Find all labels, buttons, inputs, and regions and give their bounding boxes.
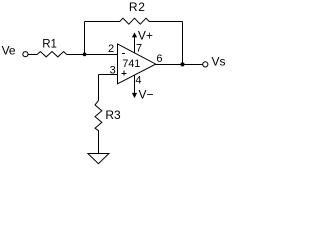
svg-text:R1: R1 [42,39,57,51]
resistor R1 [37,52,66,57]
svg-text:R2: R2 [129,0,146,14]
svg-text:2: 2 [108,43,114,55]
terminal Ve [23,52,28,57]
resistor R3 [95,101,102,131]
wire top horizontal (feedback through R2) [85,21,183,23]
terminal Vs [203,62,208,67]
op-amp U1 triangle [118,44,156,84]
svg-text:Vs: Vs [212,55,226,69]
wire pin 7 V+ [134,37,136,53]
wire output [156,64,203,66]
svg-text:7: 7 [136,43,142,55]
ground [88,154,109,164]
wire feedback right vertical [182,22,184,65]
op-amp plus sign pin3 [122,71,127,76]
wire input from Ve terminal to op-amp pin 2 [28,54,118,56]
wire op-amp pin 3 [99,74,118,76]
svg-text:V−: V− [139,87,154,101]
V+ arrowhead [132,32,137,37]
op-amp minus sign pin2 [122,53,125,55]
svg-text:R3: R3 [105,108,121,122]
junction node A (inverting input) [83,53,87,57]
svg-text:V+: V+ [138,28,153,42]
wire pin3 down to R3 [98,75,100,101]
svg-text:Ve: Ve [2,43,16,57]
wire R3 to ground [98,131,100,153]
svg-text:6: 6 [156,53,162,65]
svg-text:3: 3 [110,65,116,77]
junction node B (output) [180,62,184,66]
wire pin 4 V- [134,75,136,93]
wire feedback left vertical [84,22,86,55]
resistor R2 [120,18,149,24]
svg-text:4: 4 [135,75,141,87]
V- arrowhead [132,93,137,98]
svg-text:741: 741 [122,58,140,70]
